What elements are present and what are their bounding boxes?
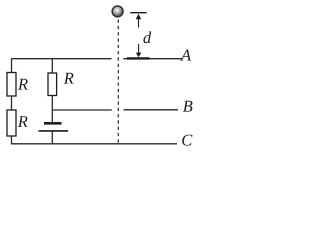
node B label bbox=[183, 101, 193, 112]
wire: plate A left segment / circuit top wire bbox=[12, 58, 112, 60]
plate B right segment bbox=[124, 109, 179, 111]
node C label bbox=[182, 135, 192, 146]
battery E top plate (short thick) bbox=[44, 122, 62, 125]
dimension arrow up bbox=[138, 19, 140, 28]
dimension arrow down bbox=[138, 44, 140, 53]
resistor R3 label bbox=[64, 73, 74, 84]
resistor R1 label bbox=[18, 79, 28, 90]
wire: middle branch below battery bbox=[51, 132, 53, 144]
resistor R2 body bbox=[7, 110, 16, 136]
label d bbox=[143, 32, 151, 44]
plate A thick landing segment bbox=[127, 57, 150, 59]
wire: left branch upper segment bbox=[11, 58, 13, 72]
battery E bottom plate (long thin) bbox=[39, 130, 69, 132]
node A label bbox=[180, 50, 191, 61]
resistor R1 body bbox=[7, 73, 16, 97]
wire: left branch lower segment bbox=[11, 136, 13, 144]
resistor R3 body bbox=[48, 73, 57, 96]
wire: middle branch upper segment bbox=[51, 58, 53, 73]
wire: middle branch from resistor to battery bbox=[51, 96, 53, 123]
dimension tick bar at ball height bbox=[130, 12, 146, 14]
plate A right segment bbox=[123, 58, 182, 60]
wire: left branch between resistors bbox=[11, 96, 13, 110]
wire: plate B left segment from middle branch bbox=[52, 109, 112, 111]
ball bbox=[112, 6, 123, 17]
dashed fall line through holes bbox=[117, 20, 119, 144]
resistor R2 label bbox=[18, 116, 28, 127]
wire: plate C / circuit bottom wire bbox=[11, 143, 177, 145]
